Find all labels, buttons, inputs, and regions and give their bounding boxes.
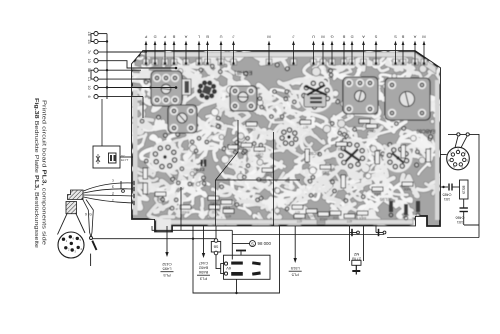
svg-text:B402: B402 — [198, 266, 208, 271]
svg-text:102: 102 — [231, 150, 237, 154]
svg-text:477: 477 — [347, 219, 353, 223]
svg-text:B: B — [401, 34, 404, 39]
svg-text:101: 101 — [444, 197, 450, 201]
svg-text:102: 102 — [212, 210, 218, 214]
svg-text:102: 102 — [158, 197, 164, 201]
svg-text:S: S — [374, 34, 377, 39]
svg-text:B406: B406 — [404, 187, 412, 191]
svg-text:G: G — [330, 34, 333, 39]
svg-text:R402: R402 — [209, 201, 217, 205]
svg-text:EL95: EL95 — [379, 197, 390, 202]
svg-text:C447: C447 — [198, 261, 208, 266]
svg-text:B402: B402 — [322, 170, 330, 174]
svg-text:B: B — [172, 34, 175, 39]
svg-text:M: M — [321, 34, 324, 39]
svg-text:A: A — [413, 34, 416, 39]
svg-text:L515: L515 — [290, 266, 300, 271]
svg-text:M: M — [267, 34, 270, 39]
svg-text:C447: C447 — [367, 129, 375, 133]
svg-text:EC92: EC92 — [308, 151, 320, 156]
svg-text:6: 6 — [87, 96, 91, 98]
svg-text:1: 1 — [112, 199, 114, 203]
svg-text:477: 477 — [226, 214, 232, 218]
svg-text:C432: C432 — [161, 262, 171, 267]
svg-text:2: 2 — [112, 192, 114, 196]
svg-text:P: P — [144, 34, 147, 39]
svg-text:L1: L1 — [87, 77, 91, 81]
svg-text:S: S — [251, 241, 254, 246]
svg-text:B: B — [342, 34, 345, 39]
svg-text:3: 3 — [112, 185, 114, 189]
svg-text:Printed circuit board PL3, com: Printed circuit board PL3, components si… — [41, 100, 47, 245]
svg-text:P: P — [163, 34, 166, 39]
svg-text:15: 15 — [87, 39, 91, 43]
svg-text:M: M — [422, 34, 425, 39]
svg-text:477: 477 — [303, 125, 309, 129]
svg-text:SB: SB — [213, 245, 218, 249]
svg-text:D: D — [153, 34, 156, 39]
svg-text:A: A — [184, 34, 187, 39]
svg-text:ELYT: ELYT — [121, 158, 128, 162]
svg-text:B: B — [206, 34, 209, 39]
svg-text:477: 477 — [297, 219, 303, 223]
svg-text:16: 16 — [87, 31, 91, 35]
svg-text:U: U — [312, 34, 315, 39]
svg-text:L495: L495 — [162, 267, 172, 272]
svg-text:C417: C417 — [255, 152, 263, 156]
svg-text:102: 102 — [333, 216, 339, 220]
svg-text:98 000: 98 000 — [258, 241, 272, 246]
svg-text:PL5: PL5 — [291, 273, 299, 278]
svg-text:C417: C417 — [247, 127, 255, 131]
svg-text:c: c — [112, 179, 114, 183]
svg-text:A: A — [362, 34, 365, 39]
svg-text:S: S — [394, 34, 397, 39]
svg-text:PL5: PL5 — [163, 273, 171, 278]
svg-text:C486: C486 — [455, 215, 464, 219]
svg-text:C447: C447 — [242, 148, 250, 152]
svg-text:J: J — [233, 34, 235, 39]
svg-text:Fig.38 Bedruckte Platte PL3, B: Fig.38 Bedruckte Platte PL3, Bestückungs… — [33, 98, 39, 248]
svg-text:EF89: EF89 — [193, 167, 204, 172]
svg-text:R418: R418 — [319, 217, 327, 221]
svg-text:5b: 5b — [87, 68, 91, 72]
svg-text:B406: B406 — [198, 270, 208, 275]
svg-text:J: J — [293, 34, 295, 39]
svg-text:6V: 6V — [226, 266, 231, 270]
svg-text:U: U — [219, 34, 222, 39]
svg-text:9: 9 — [85, 213, 87, 217]
svg-text:B406: B406 — [359, 216, 367, 220]
svg-text:10: 10 — [87, 59, 91, 63]
svg-text:PL3: PL3 — [199, 277, 207, 282]
svg-text:ECH81: ECH81 — [234, 69, 253, 75]
svg-text:BS19: BS19 — [462, 186, 466, 194]
svg-text:B402: B402 — [374, 192, 382, 196]
svg-text:R402: R402 — [181, 210, 189, 214]
svg-text:7c: 7c — [87, 50, 91, 54]
svg-text:C417: C417 — [307, 214, 315, 218]
svg-text:477: 477 — [295, 210, 301, 214]
svg-text:B406: B406 — [223, 205, 231, 209]
svg-text:101: 101 — [457, 220, 463, 224]
svg-text:C485: C485 — [442, 192, 451, 196]
svg-text:MZ: MZ — [353, 252, 359, 256]
svg-text:D: D — [350, 34, 353, 39]
svg-text:EABC80: EABC80 — [416, 128, 435, 134]
svg-text:B402: B402 — [338, 147, 346, 151]
svg-text:10: 10 — [87, 85, 91, 89]
svg-text:G: G — [89, 213, 92, 217]
svg-text:C417: C417 — [263, 173, 271, 177]
